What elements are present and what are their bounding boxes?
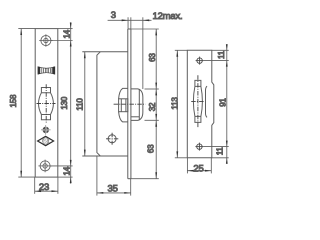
swing bolt front view [39,88,54,120]
screw hole top (front view) [39,34,52,47]
strike bolt cutout [193,80,202,122]
dimension 35 [97,156,131,196]
cutout centerlines [191,75,204,127]
svg-text:35: 35 [108,183,118,194]
dimension 110 [84,52,86,156]
bolt centerlines (front view) [37,84,56,123]
svg-text:14: 14 [62,166,71,175]
KALE logo stamp [38,67,55,74]
svg-text:11: 11 [217,50,226,59]
dimension 113 [175,50,188,158]
lock case side view [82,52,128,156]
svg-text:32: 32 [148,102,157,111]
strike lip bend line [206,86,208,117]
screw hole bottom (front view) [38,160,51,173]
strike screw hole bottom [195,143,203,151]
faceplate side view [128,29,131,179]
dimension 3 (faceplate thickness) [108,17,152,29]
svg-text:158: 158 [9,94,18,107]
svg-text:12max.: 12max. [153,11,183,22]
svg-text:25: 25 [193,164,203,175]
svg-text:130: 130 [60,96,69,109]
svg-text:91: 91 [218,98,227,107]
dimensions 11 / 91 / 11 [203,44,228,164]
dimension chain 63 / 32 / 63 [131,29,159,179]
svg-text:23: 23 [39,182,49,193]
dimension 25 [187,158,211,174]
dimension 12max (bolt projection) [142,17,144,89]
svg-text:113: 113 [170,97,179,110]
dimension 23 [35,177,58,194]
svg-text:110: 110 [76,98,85,111]
svg-text:11: 11 [216,147,225,156]
svg-text:14: 14 [62,29,71,38]
svg-text:63: 63 [148,53,157,62]
cylinder screw rosette [41,125,51,135]
TSE diamond mark [38,136,54,145]
faceplate front view outline [35,29,58,178]
svg-text:3: 3 [111,10,116,21]
bolt centerline (side view) [114,103,146,105]
svg-text:63: 63 [146,144,155,153]
bolt hub inside case (side view) [119,88,128,122]
strike screw hole top [196,57,204,65]
cylinder hole (side view) [108,135,116,143]
bolt head protruding (side view) [131,89,143,121]
svg-text:TSE: TSE [42,139,50,144]
dimension 14 top / 130 / 14 bottom shared line [51,22,73,183]
strike plate outline with lip bulge [187,50,214,158]
dimension 158 [18,29,35,178]
